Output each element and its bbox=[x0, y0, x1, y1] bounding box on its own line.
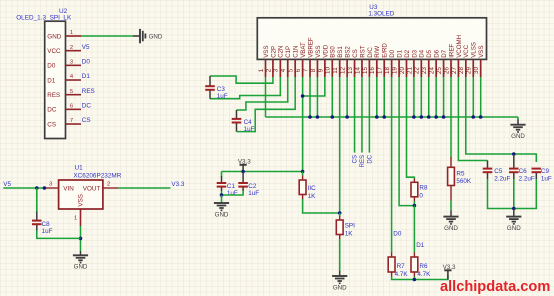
svg-text:3: 3 bbox=[70, 60, 73, 66]
U3 pin 19 D1 bbox=[398, 59, 400, 77]
U3 pin 24 D6 bbox=[435, 59, 437, 77]
svg-text:1uF: 1uF bbox=[227, 190, 238, 197]
svg-text:D5: D5 bbox=[426, 49, 433, 57]
svg-text:2: 2 bbox=[107, 181, 110, 187]
wire U3 pin19 D1 to R8 bottom node bbox=[399, 77, 414, 206]
U3 pin 21 D3 bbox=[413, 59, 415, 77]
U2 pin 1 GND bbox=[66, 35, 81, 37]
U3 pin 30 VSS bbox=[480, 59, 482, 77]
R5 leads bbox=[450, 157, 452, 167]
svg-text:CS: CS bbox=[353, 155, 359, 163]
svg-text:RES: RES bbox=[82, 88, 95, 95]
svg-text:22: 22 bbox=[414, 67, 421, 74]
wire U3 pin26 IREF down to R5 bbox=[450, 77, 452, 158]
junction V3.3 port bbox=[241, 170, 245, 174]
svg-text:U1: U1 bbox=[75, 165, 84, 172]
svg-text:1uF: 1uF bbox=[541, 176, 552, 183]
svg-text:1uF: 1uF bbox=[217, 93, 228, 100]
svg-text:2: 2 bbox=[70, 45, 73, 51]
U3 pin 12 BS2 bbox=[346, 59, 348, 77]
svg-text:R7: R7 bbox=[397, 263, 406, 270]
wire U3 pin4 C1P to C4 top bbox=[237, 77, 288, 110]
junction R6 bottom bbox=[413, 278, 417, 282]
svg-text:C1N: C1N bbox=[293, 46, 300, 58]
wire U3 pin15 D/C stub down bbox=[368, 77, 370, 153]
svg-text:3: 3 bbox=[49, 181, 52, 187]
svg-text:1: 1 bbox=[70, 30, 73, 36]
svg-text:BS2: BS2 bbox=[345, 46, 352, 58]
svg-text:D0: D0 bbox=[393, 231, 402, 238]
svg-text:V5: V5 bbox=[3, 181, 11, 188]
wire U3 pin22 D4 to bus bbox=[420, 77, 422, 117]
wire U3 pin29 VLSS to bus bbox=[472, 77, 474, 117]
svg-text:VSS: VSS bbox=[315, 46, 322, 58]
U3 pin 29 VLSS bbox=[472, 59, 474, 77]
svg-text:11: 11 bbox=[332, 67, 339, 74]
svg-text:16: 16 bbox=[369, 67, 376, 74]
wire D1 node down to R6 bbox=[413, 206, 415, 253]
capacitor C5 bbox=[487, 161, 489, 169]
svg-text:R8: R8 bbox=[419, 185, 428, 192]
capacitor C8 bbox=[36, 212, 38, 221]
svg-text:D0: D0 bbox=[389, 49, 396, 57]
R7 leads bbox=[391, 253, 393, 258]
wire C5/C6/C9 bottoms bbox=[488, 179, 537, 209]
wire U3 pin9 VDD to VBAT wire bbox=[303, 77, 325, 96]
U3 pin 28 VCC bbox=[465, 59, 467, 77]
svg-text:OLED_1.3_SPI_LK: OLED_1.3_SPI_LK bbox=[16, 15, 72, 22]
svg-text:VDD: VDD bbox=[322, 44, 329, 58]
svg-text:1: 1 bbox=[74, 216, 77, 222]
svg-text:C9: C9 bbox=[541, 168, 550, 175]
capacitor C4 bbox=[236, 110, 238, 119]
svg-text:C6: C6 bbox=[519, 168, 528, 175]
junction bus pin30 bbox=[479, 115, 483, 119]
U1 pin 1 VSS stub bbox=[80, 209, 82, 226]
svg-text:VLSS: VLSS bbox=[471, 42, 478, 58]
U3 pin 6 VBAT bbox=[302, 59, 304, 77]
U3 pin 20 D2 bbox=[405, 59, 407, 77]
svg-text:6: 6 bbox=[70, 104, 73, 110]
svg-text:24: 24 bbox=[429, 67, 436, 74]
svg-text:V3.3: V3.3 bbox=[443, 264, 456, 271]
U2 pin 4 D1 bbox=[66, 79, 81, 81]
svg-text:D/C: D/C bbox=[367, 47, 374, 58]
junction VIN bbox=[43, 186, 47, 190]
U3 pin 25 D7 bbox=[443, 59, 445, 77]
svg-text:28: 28 bbox=[458, 67, 465, 74]
svg-text:XC6206P232MR: XC6206P232MR bbox=[73, 173, 121, 180]
junction C1 bottom / GND bbox=[220, 193, 224, 197]
svg-text:C3: C3 bbox=[217, 86, 226, 93]
svg-text:R/W: R/W bbox=[374, 46, 381, 58]
wire U3 pin17 E/RD to bus bbox=[383, 77, 385, 117]
U3 pin 22 D4 bbox=[420, 59, 422, 77]
U3 pin 17 E/RD bbox=[383, 59, 385, 77]
wire V3.3 rail bbox=[222, 171, 303, 173]
svg-text:IIC: IIC bbox=[308, 185, 316, 192]
svg-text:RES: RES bbox=[360, 155, 366, 167]
connector U3 1.3OLED bbox=[257, 18, 486, 60]
svg-text:VBAT: VBAT bbox=[300, 42, 307, 58]
svg-text:30: 30 bbox=[473, 67, 480, 74]
wire C6 bottom bbox=[513, 179, 515, 209]
junction R8 / D1 bbox=[413, 204, 417, 208]
capacitor C2 bbox=[242, 172, 244, 184]
svg-text:CS: CS bbox=[82, 117, 91, 124]
wire U3 pin7 VBREF to bus bbox=[309, 77, 311, 117]
svg-text:C2N: C2N bbox=[278, 46, 285, 58]
wire R7/R6 bottoms to V3.3 bbox=[392, 275, 448, 280]
power port V3.3 at pullups bbox=[444, 269, 451, 271]
svg-text:R5: R5 bbox=[456, 170, 465, 177]
svg-text:C2P: C2P bbox=[270, 46, 277, 58]
junction bus pin23 bbox=[427, 115, 431, 119]
svg-text:VSS: VSS bbox=[478, 46, 485, 58]
svg-text:allchipdata.com: allchipdata.com bbox=[440, 279, 550, 295]
resistor R5 560K bbox=[448, 167, 455, 185]
svg-text:GND: GND bbox=[511, 133, 525, 140]
svg-text:GND: GND bbox=[444, 225, 458, 232]
svg-text:C1: C1 bbox=[227, 183, 236, 190]
wire bus to ground bbox=[517, 117, 519, 120]
svg-text:RES: RES bbox=[47, 92, 60, 99]
svg-text:D2: D2 bbox=[404, 49, 411, 57]
junction bus pin12 bbox=[345, 115, 349, 119]
wire SPI bottom to ground bbox=[339, 235, 341, 240]
U2 pin 7 CS bbox=[66, 123, 81, 125]
wire U3 pin21 D3 to bus bbox=[413, 77, 415, 117]
svg-text:21: 21 bbox=[406, 67, 413, 74]
junction VCC wire / C6 bbox=[512, 152, 516, 156]
U3 pin 23 D5 bbox=[428, 59, 430, 77]
svg-text:VSS: VSS bbox=[78, 194, 85, 207]
U1 pin 3 VIN stub bbox=[46, 187, 59, 189]
wire U3 pin6 VBAT down to V3.3 rail bbox=[302, 77, 304, 172]
svg-text:GND: GND bbox=[507, 225, 521, 232]
svg-text:4.7K: 4.7K bbox=[395, 271, 409, 278]
wire C1/C2 bottoms bbox=[222, 191, 244, 195]
ground GND (rotated power port at U2 pin 1) bbox=[133, 35, 140, 37]
svg-text:19: 19 bbox=[391, 67, 398, 74]
svg-text:BS0: BS0 bbox=[330, 46, 337, 58]
svg-text:15: 15 bbox=[362, 67, 369, 74]
wire U3 pin25 D7 to bus bbox=[443, 77, 445, 117]
svg-text:17: 17 bbox=[377, 67, 384, 74]
svg-text:R6: R6 bbox=[419, 263, 428, 270]
ground GND of C1/C2 bbox=[214, 202, 229, 204]
ground GND of R5 bbox=[443, 216, 458, 218]
U3 pin 5 C1N bbox=[294, 59, 296, 77]
U3 pin 4 C1P bbox=[287, 59, 289, 77]
resistor SPI 1K bbox=[336, 220, 343, 235]
wire U3 pin8 VSS to bus bbox=[316, 77, 318, 117]
U3 pin 8 VSS bbox=[316, 59, 318, 77]
svg-text:D6: D6 bbox=[434, 49, 441, 57]
wire rail down to C1 bbox=[221, 172, 223, 177]
svg-text:2: 2 bbox=[265, 68, 272, 72]
svg-text:27: 27 bbox=[451, 67, 458, 74]
junction VDD/VBAT bbox=[301, 94, 305, 98]
svg-text:GND: GND bbox=[74, 264, 88, 271]
wire U3 pin28 VCC to C6/C9 bbox=[466, 77, 537, 162]
regulator U1 XC6206P232MR bbox=[59, 180, 103, 209]
svg-text:3: 3 bbox=[273, 68, 280, 72]
junction C8 / VSS bbox=[79, 237, 83, 241]
svg-text:CS: CS bbox=[47, 121, 56, 128]
svg-text:10: 10 bbox=[325, 67, 332, 74]
wire node to SPI resistor bbox=[339, 213, 341, 216]
wire V5 to U1 VIN bbox=[3, 187, 46, 189]
U2 pin 3 D0 bbox=[66, 64, 81, 66]
svg-text:9: 9 bbox=[317, 68, 324, 72]
svg-text:VCC: VCC bbox=[47, 48, 61, 55]
wire down to ground bbox=[221, 195, 223, 202]
svg-text:DC: DC bbox=[82, 103, 92, 110]
wire U3 pin24 D6 to bus bbox=[435, 77, 437, 117]
svg-text:VIN: VIN bbox=[63, 186, 74, 193]
svg-text:7: 7 bbox=[70, 118, 73, 124]
wire U3 pin13 CS stub down bbox=[354, 77, 356, 153]
U3 pin 16 R/W bbox=[376, 59, 378, 77]
svg-text:VOUT: VOUT bbox=[83, 186, 101, 193]
capacitor C3 bbox=[209, 76, 211, 86]
wire C8 bottom to VSS bbox=[37, 231, 81, 239]
R8 leads bbox=[413, 179, 415, 183]
junction bus pin7 bbox=[308, 115, 312, 119]
junction C8 branch bbox=[35, 186, 39, 190]
wire U3 pin3 C2N to C3 bottom bbox=[210, 77, 280, 99]
junction VBAT / rail / IIC bbox=[301, 170, 305, 174]
svg-text:E/RD: E/RD bbox=[382, 43, 389, 58]
svg-text:V3.3: V3.3 bbox=[238, 159, 251, 166]
svg-text:1.3OLED: 1.3OLED bbox=[368, 10, 394, 17]
svg-text:D1: D1 bbox=[82, 73, 91, 80]
U3 pin 11 BS1 bbox=[339, 59, 341, 77]
U2 pin 6 DC bbox=[66, 108, 81, 110]
wire U3 pin11 BS1 down to IIC/SPI node bbox=[339, 77, 341, 213]
junction bus pin25 bbox=[442, 115, 446, 119]
ground GND of C5/C6/C9 bbox=[506, 216, 521, 218]
wire V5 down to C8 bbox=[36, 188, 38, 212]
wire U3 pin30 VSS to bus bbox=[480, 77, 482, 117]
capacitor C1 bbox=[221, 176, 223, 183]
junction BS1 / IIC / SPI bbox=[338, 211, 342, 215]
svg-text:18: 18 bbox=[384, 67, 391, 74]
svg-text:VCOMH: VCOMH bbox=[456, 35, 463, 58]
svg-text:20: 20 bbox=[399, 67, 406, 74]
svg-text:25: 25 bbox=[436, 67, 443, 74]
U3 pin 27 VCOMH bbox=[457, 59, 459, 77]
svg-text:4: 4 bbox=[280, 68, 287, 72]
svg-text:RST: RST bbox=[359, 45, 366, 58]
svg-text:V5: V5 bbox=[82, 44, 90, 51]
wire U3 pin2 C2P to C3 top bbox=[210, 76, 273, 83]
wire VOUT to V3.3 label bbox=[118, 187, 170, 189]
svg-text:C2: C2 bbox=[248, 183, 257, 190]
wire U3 pin20 D2 to R8 top bbox=[407, 77, 415, 179]
svg-text:VCC: VCC bbox=[463, 44, 470, 58]
svg-text:GND: GND bbox=[333, 284, 347, 291]
wire U3 pin16 R/W to bus bbox=[376, 77, 378, 117]
wire U3 pin12 BS2 to bus bbox=[346, 77, 348, 117]
svg-text:1: 1 bbox=[258, 68, 265, 72]
svg-text:DC: DC bbox=[368, 154, 374, 163]
R6 leads bbox=[413, 253, 415, 258]
svg-text:D0: D0 bbox=[82, 59, 91, 66]
resistor IIC 1K bbox=[299, 180, 306, 195]
junction bus pin8 bbox=[316, 115, 320, 119]
ground GND of U1 bbox=[73, 254, 88, 256]
ground GND of bus bbox=[510, 124, 525, 126]
wire U3 pin5 C1N to C4 bottom bbox=[237, 77, 296, 132]
svg-text:D4: D4 bbox=[419, 49, 426, 57]
svg-text:D1: D1 bbox=[416, 242, 425, 249]
U2 pin 5 RES bbox=[66, 94, 81, 96]
svg-text:8: 8 bbox=[310, 68, 317, 72]
resistor R8 0 bbox=[411, 182, 418, 197]
U3 pin 18 D0 bbox=[391, 59, 393, 77]
svg-text:C1P: C1P bbox=[285, 46, 292, 58]
wire down to ground bbox=[513, 209, 515, 217]
svg-text:1uF: 1uF bbox=[42, 228, 53, 235]
svg-text:2.2uF: 2.2uF bbox=[519, 176, 535, 183]
svg-text:V3.3: V3.3 bbox=[171, 181, 184, 188]
svg-text:12: 12 bbox=[340, 67, 347, 74]
power port V3.3 at C1/C2 bbox=[240, 164, 247, 166]
svg-text:VSS: VSS bbox=[263, 46, 270, 58]
U3 pin 14 RST bbox=[361, 59, 363, 77]
wire U3 pin10 BS0 to bus bbox=[331, 77, 333, 117]
wire U3 pin1 VSS to GND bus bbox=[265, 77, 267, 117]
svg-text:0: 0 bbox=[419, 193, 423, 200]
junction bus pin29 bbox=[471, 115, 475, 119]
svg-text:C5: C5 bbox=[494, 168, 503, 175]
svg-text:1K: 1K bbox=[308, 193, 317, 200]
U3 pin 10 BS0 bbox=[331, 59, 333, 77]
svg-text:560K: 560K bbox=[456, 178, 472, 185]
svg-text:CS: CS bbox=[352, 49, 359, 58]
svg-text:1K: 1K bbox=[345, 231, 354, 238]
svg-text:IREF: IREF bbox=[448, 44, 455, 58]
svg-text:GND: GND bbox=[215, 211, 229, 218]
wire R6 bottom bbox=[413, 277, 415, 280]
resistor R7 4.7K bbox=[388, 257, 395, 272]
U3 pin 7 VBREF bbox=[309, 59, 311, 77]
wire rail to IIC resistor bbox=[302, 172, 304, 176]
svg-text:23: 23 bbox=[421, 67, 428, 74]
svg-text:GND: GND bbox=[149, 34, 163, 41]
U1 pin 2 VOUT stub bbox=[103, 187, 119, 189]
resistor R6 4.7K bbox=[411, 257, 418, 272]
svg-text:C4: C4 bbox=[244, 119, 253, 126]
svg-text:D1: D1 bbox=[396, 49, 403, 57]
U3 pin 26 IREF bbox=[450, 59, 452, 77]
svg-text:1uF: 1uF bbox=[244, 126, 255, 133]
U3 pin 3 C2N bbox=[279, 59, 281, 77]
wire GND bus bbox=[266, 116, 519, 118]
junction bus pin22 bbox=[420, 115, 424, 119]
svg-text:D3: D3 bbox=[411, 49, 418, 57]
capacitor C6 bbox=[513, 154, 515, 169]
svg-text:4.7K: 4.7K bbox=[417, 271, 431, 278]
svg-text:7: 7 bbox=[302, 68, 309, 72]
svg-text:5: 5 bbox=[70, 89, 73, 95]
svg-text:5: 5 bbox=[288, 68, 295, 72]
wire U2 pin1 to GND bbox=[81, 35, 133, 37]
U3 pin 2 C2P bbox=[272, 59, 274, 77]
junction bus pin24 bbox=[434, 115, 438, 119]
U3 pin 15 D/C bbox=[368, 59, 370, 77]
wire U3 pin23 D5 to bus bbox=[428, 77, 430, 117]
wire VSS down to ground bbox=[80, 226, 82, 251]
svg-text:D1: D1 bbox=[47, 77, 56, 84]
svg-text:GND: GND bbox=[47, 33, 61, 40]
svg-text:14: 14 bbox=[354, 67, 361, 74]
U2 pin 2 VCC bbox=[66, 50, 81, 52]
U3 pin 9 VDD bbox=[324, 59, 326, 77]
capacitor C9 bbox=[535, 172, 537, 179]
svg-text:29: 29 bbox=[466, 67, 473, 74]
svg-text:6: 6 bbox=[295, 68, 302, 72]
wire IIC bottom to BS1/SPI node bbox=[302, 195, 304, 200]
junction bus pin16 bbox=[375, 115, 379, 119]
connector U2 OLED_1.3_SPI_LK bbox=[45, 21, 66, 138]
svg-text:D0: D0 bbox=[47, 63, 56, 70]
junction bus pin21 bbox=[412, 115, 416, 119]
svg-text:C8: C8 bbox=[42, 221, 51, 228]
wire U3 pin18 D0 down to R7 bbox=[391, 77, 393, 253]
svg-text:D7: D7 bbox=[441, 49, 448, 57]
svg-text:SPI: SPI bbox=[345, 223, 355, 230]
junction bus pin10 bbox=[330, 115, 334, 119]
svg-text:VBREF: VBREF bbox=[307, 37, 314, 58]
svg-text:DC: DC bbox=[47, 107, 57, 114]
svg-text:BS1: BS1 bbox=[337, 46, 344, 58]
svg-text:13: 13 bbox=[347, 67, 354, 74]
wire U3 pin14 RST stub down bbox=[361, 77, 363, 153]
wire U3 pin27 VCOMH to C5 bbox=[458, 77, 487, 161]
junction bus pin17 bbox=[382, 115, 386, 119]
junction caps bottom / GND bbox=[512, 207, 516, 211]
svg-text:1uF: 1uF bbox=[248, 190, 259, 197]
U3 pin 13 CS bbox=[354, 59, 356, 77]
svg-text:26: 26 bbox=[443, 67, 450, 74]
ground GND of SPI bbox=[332, 275, 347, 277]
svg-text:2.2uF: 2.2uF bbox=[494, 176, 510, 183]
U3 pin 1 VSS bbox=[265, 59, 267, 77]
